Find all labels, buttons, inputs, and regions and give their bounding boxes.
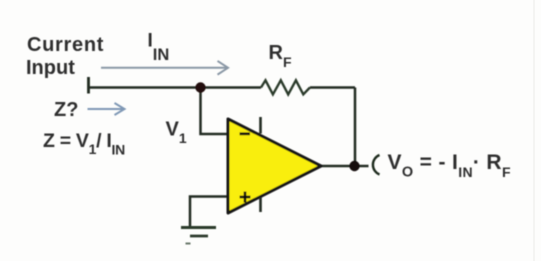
wire: resistor to corner [310,86,355,89]
wire: feedback vertical [354,88,357,167]
svg-text:Current: Current [27,34,104,56]
svg-text:Input: Input [26,57,75,79]
wire: junction down to inverting input [201,88,229,135]
wire: output [321,165,369,168]
op-amp V- supply pin [259,198,262,213]
wire: input to resistor [89,86,262,89]
op-amp U1 [228,119,321,213]
ground [181,228,216,244]
input terminal tick [87,77,90,94]
op-amp minus input sign [240,132,251,135]
arrow Z [88,103,125,115]
op-amp plus input sign [240,192,251,203]
output terminal arc [373,155,380,175]
arrow IIN [101,61,228,75]
node junction at output [349,161,359,171]
resistor RF [261,80,310,94]
wire: non-inverting input to ground [190,197,228,228]
node junction at input [195,82,205,92]
svg-text:Z?: Z? [54,99,78,121]
op-amp V+ supply pin [259,117,262,134]
